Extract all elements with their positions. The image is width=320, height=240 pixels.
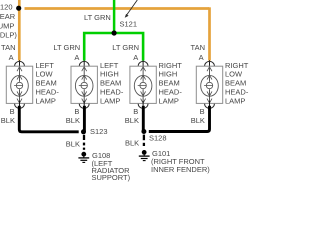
headlamp U4 right low beam xyxy=(196,60,222,108)
svg-text:B: B xyxy=(10,107,15,116)
label LEFT LOW BEAM HEADLAMP xyxy=(36,61,60,106)
svg-text:SUPPORT): SUPPORT) xyxy=(92,173,131,182)
svg-text:BLK: BLK xyxy=(66,116,80,125)
svg-text:HIGH: HIGH xyxy=(100,70,119,79)
svg-text:(REAR: (REAR xyxy=(0,12,16,21)
label RIGHT LOW BEAM HEADLAMP xyxy=(225,61,249,106)
svg-text:LAMP: LAMP xyxy=(225,96,245,105)
wire TAN vertical feed above splice S120 xyxy=(18,0,21,8)
svg-text:LT GRN: LT GRN xyxy=(112,43,139,52)
svg-text:A: A xyxy=(9,53,14,62)
svg-text:RIGHT: RIGHT xyxy=(159,61,183,70)
svg-text:HIGH: HIGH xyxy=(159,70,178,79)
svg-text:LT GRN: LT GRN xyxy=(53,43,80,52)
wire BLK right high to splice S128 xyxy=(142,106,145,132)
wire TAN drop to left low beam headlamp xyxy=(18,8,21,60)
wire LT GRN bus to high beam headlamps xyxy=(84,33,143,61)
svg-text:LEFT: LEFT xyxy=(100,61,119,70)
svg-text:LT GRN: LT GRN xyxy=(84,13,111,22)
svg-text:BLK: BLK xyxy=(191,116,205,125)
svg-text:BLK: BLK xyxy=(66,139,80,148)
label G108 (LEFT RADIATOR SUPPORT) xyxy=(92,151,131,182)
svg-text:S128: S128 xyxy=(149,133,167,142)
svg-text:A: A xyxy=(199,53,204,62)
splice S123 xyxy=(81,127,108,136)
svg-text:BEAM: BEAM xyxy=(159,79,180,88)
svg-text:S120: S120 xyxy=(0,3,13,12)
svg-text:LOW: LOW xyxy=(225,70,243,79)
wire BLK dashed to ground G101 xyxy=(143,135,145,146)
splice S121 node xyxy=(112,30,117,35)
headlamp U1 left low beam xyxy=(6,60,32,108)
svg-text:RIGHT: RIGHT xyxy=(225,61,249,70)
callout arrow to S121 xyxy=(125,0,138,18)
svg-text:BEAM: BEAM xyxy=(225,79,246,88)
svg-text:JUMP: JUMP xyxy=(0,22,14,31)
wire BLK right low to splice S128 xyxy=(149,106,210,132)
svg-text:INNER FENDER): INNER FENDER) xyxy=(151,165,210,174)
svg-text:LAMP: LAMP xyxy=(100,96,120,105)
svg-text:HEAD-: HEAD- xyxy=(225,88,249,97)
splice S128 xyxy=(141,129,166,142)
wire TAN drop to right low beam headlamp xyxy=(208,7,211,60)
label RIGHT HIGH BEAM HEADLAMP xyxy=(159,61,183,106)
label LEFT HIGH BEAM HEADLAMP xyxy=(100,61,124,106)
svg-text:HEAD-: HEAD- xyxy=(36,88,60,97)
svg-text:S123: S123 xyxy=(90,127,108,136)
ground G108 xyxy=(78,152,89,163)
svg-text:LAMP: LAMP xyxy=(36,96,56,105)
note (REAR JUMP HDLP) cut at left edge xyxy=(0,12,17,39)
wire TAN horizontal bus from S120 to right low beam xyxy=(25,7,210,10)
svg-text:B: B xyxy=(74,107,79,116)
svg-text:TAN: TAN xyxy=(191,43,205,52)
svg-text:LEFT: LEFT xyxy=(36,61,55,70)
svg-text:LAMP: LAMP xyxy=(159,96,179,105)
svg-text:HEAD-: HEAD- xyxy=(100,88,124,97)
splice S120 xyxy=(0,3,21,12)
svg-text:BEAM: BEAM xyxy=(100,79,121,88)
svg-text:S121: S121 xyxy=(120,20,138,29)
svg-text:B: B xyxy=(133,107,138,116)
svg-text:LOW: LOW xyxy=(36,70,54,79)
svg-text:HDLP): HDLP) xyxy=(0,30,17,39)
label G101 (RIGHT FRONT INNER FENDER) xyxy=(151,149,210,174)
svg-text:A: A xyxy=(133,53,138,62)
wire LT GRN vertical feed to splice S121 xyxy=(113,0,116,33)
svg-text:BLK: BLK xyxy=(1,116,15,125)
svg-text:HEAD-: HEAD- xyxy=(159,88,183,97)
wire BLK dashed to ground G108 xyxy=(83,135,85,150)
svg-text:BLK: BLK xyxy=(125,116,139,125)
ground G101 xyxy=(139,150,150,161)
wire BLK left low to splice S123 xyxy=(19,106,78,132)
svg-text:A: A xyxy=(74,53,79,62)
svg-text:BEAM: BEAM xyxy=(36,79,57,88)
svg-text:B: B xyxy=(200,107,205,116)
svg-text:TAN: TAN xyxy=(1,43,15,52)
headlamp U2 left high beam xyxy=(71,60,97,108)
svg-text:BLK: BLK xyxy=(125,139,139,148)
headlamp U3 right high beam xyxy=(130,60,156,108)
wire BLK left high to splice S123 xyxy=(83,106,86,132)
